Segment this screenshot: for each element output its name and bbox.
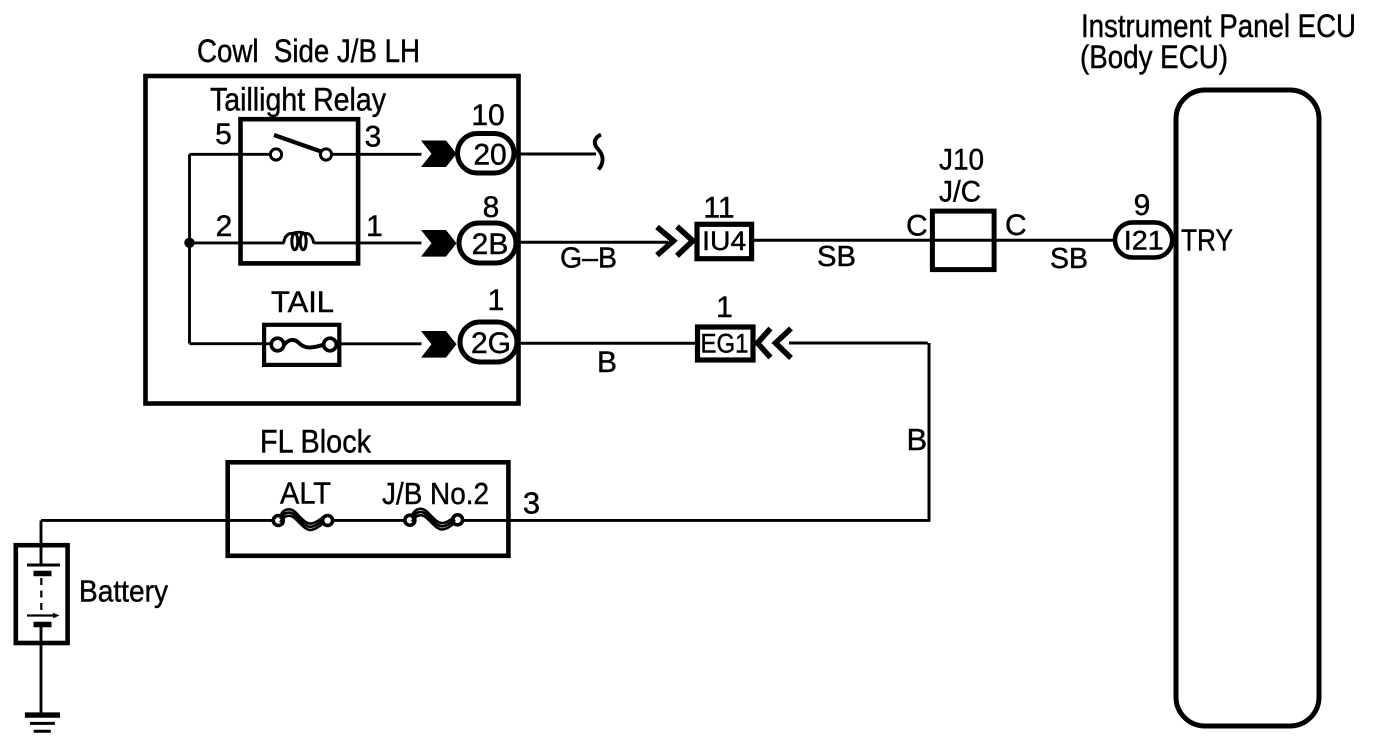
FL Block box bbox=[228, 462, 509, 556]
relay switch contact left bbox=[270, 149, 281, 160]
svg-text:20: 20 bbox=[473, 139, 506, 172]
fuse TAIL element bbox=[271, 338, 284, 351]
relay switch contact right bbox=[320, 149, 331, 160]
connector arrow (black) row 3 bbox=[421, 331, 457, 358]
connector oval 2G bbox=[460, 322, 517, 362]
fuse TAIL box bbox=[264, 325, 339, 365]
ground symbol bbox=[25, 712, 60, 717]
svg-text:3: 3 bbox=[365, 121, 382, 154]
wire: oval 2B to IU4 bbox=[519, 241, 669, 244]
svg-text:5: 5 bbox=[215, 118, 232, 151]
svg-text:TRY: TRY bbox=[1181, 223, 1233, 258]
fusible link ALT bbox=[273, 516, 283, 526]
svg-text:(Body ECU): (Body ECU) bbox=[1080, 39, 1228, 75]
svg-text:EG1: EG1 bbox=[701, 329, 749, 359]
svg-text:10: 10 bbox=[471, 99, 504, 132]
svg-text:11: 11 bbox=[703, 192, 734, 225]
svg-text:C: C bbox=[906, 210, 928, 243]
wire: relay pin 3 to connector arrow bbox=[332, 153, 422, 156]
svg-text:FL Block: FL Block bbox=[260, 424, 372, 460]
wire: down into battery bbox=[40, 520, 43, 565]
relay switch blade bbox=[274, 135, 321, 152]
svg-text:J/B No.2: J/B No.2 bbox=[382, 476, 489, 511]
svg-text:ALT: ALT bbox=[280, 476, 331, 511]
relay coil bbox=[284, 234, 293, 244]
svg-text:2B: 2B bbox=[472, 228, 509, 261]
svg-text:SB: SB bbox=[1050, 243, 1088, 275]
connector arrow (black) row 1 bbox=[421, 141, 457, 168]
wire: ALT to J/B No.2 link bbox=[334, 519, 404, 522]
wire: battery to FL block bbox=[41, 519, 273, 522]
svg-text:2G: 2G bbox=[471, 327, 511, 360]
wire: left bus vertical (pins 5-2-TAIL) bbox=[188, 154, 191, 343]
connector oval 20 bbox=[458, 134, 515, 174]
junction dot on bus at pin 2 bbox=[184, 238, 194, 248]
battery cell 1 short plate bbox=[34, 571, 52, 577]
svg-text:Taillight Relay: Taillight Relay bbox=[210, 82, 386, 118]
junction connector J10 J/C box bbox=[932, 211, 994, 270]
svg-text:IU4: IU4 bbox=[702, 226, 746, 256]
wire: bus to TAIL fuse bbox=[190, 342, 273, 345]
wire: vertical down to FL row bbox=[928, 343, 931, 520]
svg-text:3: 3 bbox=[523, 486, 540, 521]
wire: battery to ground bbox=[40, 626, 43, 713]
relay box (Taillight Relay) bbox=[241, 119, 359, 263]
battery dashed link bbox=[40, 578, 42, 611]
wire: IU4 to J/C to I21 bbox=[754, 239, 1114, 242]
double chevron arrows into IU4 bbox=[657, 227, 674, 255]
wire: FL block to corner riser bbox=[464, 519, 931, 522]
wire: TAIL fuse to connector arrow bbox=[337, 342, 422, 345]
svg-text:Battery: Battery bbox=[79, 574, 168, 609]
connector EG1 box bbox=[698, 327, 754, 360]
wire: oval 20 to break bbox=[519, 153, 597, 156]
svg-text:SB: SB bbox=[817, 241, 856, 273]
svg-text:B: B bbox=[597, 346, 617, 379]
svg-text:I21: I21 bbox=[1124, 226, 1164, 256]
battery cell 1 long plate bbox=[27, 564, 60, 567]
Instrument Panel ECU box bbox=[1176, 90, 1319, 726]
svg-text:G–B: G–B bbox=[560, 243, 617, 275]
svg-text:1: 1 bbox=[366, 210, 383, 243]
wire: bus to relay pin 5 bbox=[190, 153, 271, 156]
svg-text:1: 1 bbox=[716, 291, 733, 324]
svg-text:8: 8 bbox=[483, 191, 500, 224]
battery cell 2 long plate with arrow bbox=[27, 614, 56, 616]
wire: EG1 to corner bbox=[789, 342, 928, 345]
svg-text:C: C bbox=[1005, 209, 1027, 242]
fusible link J/B No.2 bbox=[405, 515, 415, 525]
connector oval 2B bbox=[459, 223, 516, 263]
wire break squiggle bbox=[595, 135, 603, 170]
svg-text:2: 2 bbox=[216, 210, 233, 243]
wire: bus to relay coil bbox=[190, 241, 285, 244]
wire: relay coil to connector arrow bbox=[314, 241, 422, 244]
svg-text:J10: J10 bbox=[939, 144, 984, 177]
junction block: Cowl Side J/B LH box bbox=[146, 76, 519, 404]
wire: oval 2G to EG1 bbox=[520, 342, 696, 345]
double chevron arrows into EG1 bbox=[758, 329, 771, 358]
svg-text:1: 1 bbox=[488, 284, 505, 317]
connector IU4 box bbox=[697, 224, 752, 258]
connector oval I21 bbox=[1115, 222, 1172, 257]
svg-text:J/C: J/C bbox=[939, 176, 981, 209]
svg-text:9: 9 bbox=[1134, 189, 1151, 222]
battery box bbox=[16, 545, 68, 643]
battery cell 2 short plate bbox=[34, 622, 52, 628]
svg-text:B: B bbox=[907, 422, 928, 457]
svg-text:TAIL: TAIL bbox=[271, 286, 334, 319]
svg-text:Cowl Side J/B LH: Cowl Side J/B LH bbox=[197, 33, 420, 69]
connector arrow (black) row 2 bbox=[421, 230, 457, 257]
